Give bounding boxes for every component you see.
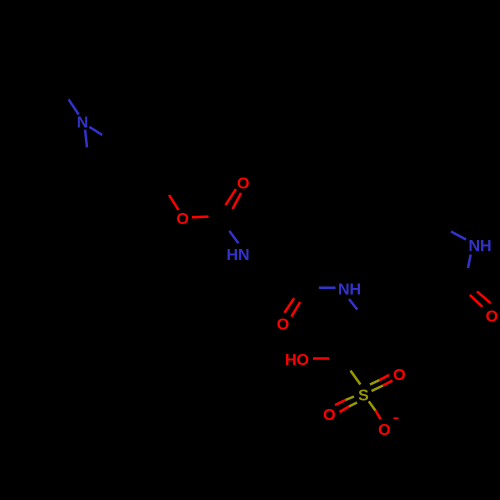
svg-text:O: O	[393, 367, 405, 384]
wire double bond C=O lactam line1	[477, 291, 491, 303]
wire double bond C3=O1 line2	[233, 193, 242, 209]
wire bond O2-C3 half	[192, 215, 209, 218]
wire double bond C=O amide line2	[291, 302, 300, 317]
wire double bond C=O lactam line2	[470, 295, 483, 307]
wire bond N-CH2 half	[349, 299, 357, 310]
wire double bond C=O amide line1	[284, 298, 294, 313]
svg-text:O: O	[237, 176, 249, 193]
svg-text:O: O	[323, 407, 335, 424]
wire bond C-N amide half	[319, 287, 336, 290]
svg-text:NH: NH	[468, 238, 491, 255]
wire bond N1-C down half	[85, 130, 87, 148]
wire bond S-Ominus O-half	[375, 411, 380, 420]
wire double bond S=O upper-right line1 O-half	[380, 375, 390, 380]
svg-text:O: O	[277, 317, 289, 334]
wire bond CH2-O2 half	[169, 195, 179, 210]
svg-text:HO: HO	[285, 352, 309, 369]
wire double bond C3=O1 line1	[226, 189, 237, 205]
wire double bond S=O lower-left line2 S-half	[349, 403, 357, 407]
svg-text:O: O	[176, 211, 188, 228]
svg-text:N: N	[77, 115, 89, 132]
wire double bond S=O upper-right line2 S-half	[372, 386, 384, 392]
wire double bond S=O upper-right line1 S-half	[370, 380, 380, 385]
wire bond N-C carbonyl lactam half	[468, 255, 471, 269]
wire bond C-N lactam half	[451, 232, 466, 240]
wire double bond S=O lower-left line1 O-half	[335, 400, 346, 405]
svg-text:HN: HN	[226, 247, 249, 264]
wire bond N1-C right-down half	[89, 127, 102, 135]
wire bond C3-N4 half	[229, 231, 238, 243]
svg-text:NH: NH	[338, 282, 361, 299]
svg-text:S: S	[358, 387, 369, 404]
wire double bond S=O upper-right line2 O-half	[383, 381, 393, 386]
wire double bond S=O lower-left line1 S-half	[346, 397, 355, 401]
charge minus sign	[393, 417, 398, 419]
wire bond N1-C up-left half	[69, 99, 79, 114]
wire bond O-C6 half	[313, 357, 329, 360]
svg-text:O: O	[378, 422, 390, 439]
wire double bond S=O lower-left line2 O-half	[340, 407, 350, 413]
svg-text:O: O	[486, 308, 498, 325]
wire bond S-Ominus S-half	[369, 401, 376, 410]
wire bond C6-S half	[351, 371, 361, 385]
